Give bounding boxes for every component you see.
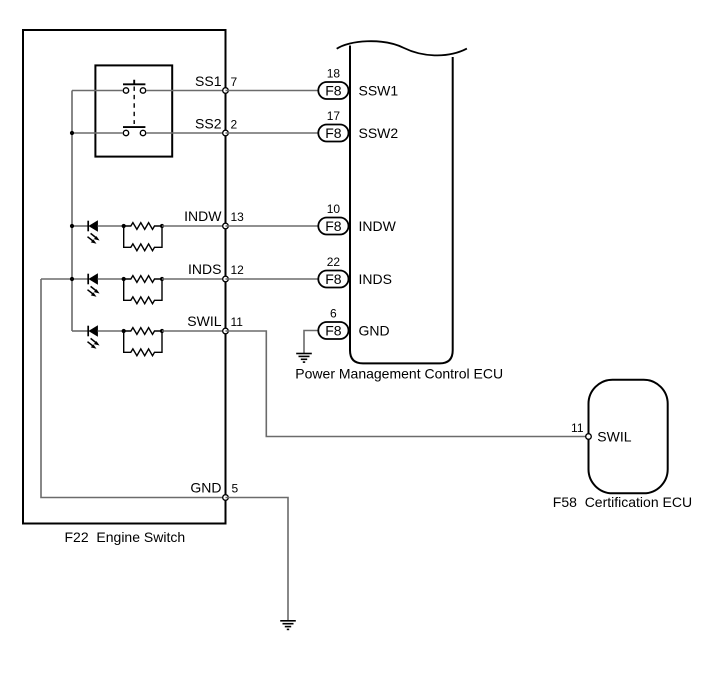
resistor R1 / R2 parallel pair (INDW): [98, 223, 226, 251]
svg-text:F8: F8: [325, 125, 342, 141]
junction node left of R5: [122, 329, 126, 333]
switch SW1 pole2 contact left: [123, 130, 128, 135]
svg-text:INDW: INDW: [184, 208, 222, 224]
resistor R6 zigzag (parallel below): [124, 331, 162, 356]
svg-text:SSW2: SSW2: [359, 125, 399, 141]
switch SW1 pole2 actuator bar: [123, 126, 145, 128]
LED D3 (SWIL) group: [72, 326, 100, 349]
svg-text:GND: GND: [359, 322, 390, 338]
svg-text:10: 10: [327, 202, 341, 216]
ground symbol (ECU GND): [296, 354, 312, 363]
pin INDS (engine switch pin 12): [223, 276, 229, 282]
LED D3 emission arrow 2: [88, 342, 95, 347]
LED D1 emission arrow 2: [88, 237, 95, 242]
resistor R3 zigzag: [124, 276, 162, 283]
wire INDS row: LED to resistor node: [98, 278, 124, 280]
LED D3 emission arrow 1: [91, 338, 98, 343]
svg-text:22: 22: [327, 255, 341, 269]
junction node right of R5: [160, 329, 164, 333]
wire left bus vertical (SS1 to SWIL): [71, 91, 73, 332]
wire SS2 row: left bus to switch contact: [72, 132, 123, 134]
pin SWIL (engine switch pin 11): [223, 328, 229, 334]
connector F8 pin 22 (INDS): [318, 255, 392, 288]
wire INDW row: LED to resistor node: [98, 225, 124, 227]
svg-text:SWIL: SWIL: [187, 313, 221, 329]
LED D2 emission arrow 1: [91, 286, 98, 291]
wire INDS row: left drop bus to LED D2: [41, 278, 88, 280]
pin SS1 (engine switch pin 7): [223, 88, 229, 94]
svg-text:SS2: SS2: [195, 116, 222, 132]
svg-text:F8: F8: [325, 322, 342, 338]
LED D3 triangle: [89, 326, 98, 336]
svg-text:F8: F8: [325, 218, 342, 234]
svg-text:SWIL: SWIL: [597, 428, 631, 444]
wire SWIL row: LED to resistor node: [98, 330, 124, 332]
wire SS1 row: switch to pin 7: [146, 90, 225, 92]
junction bus/SS2: [70, 131, 74, 135]
wire GND pin 5 to ground: [226, 498, 289, 621]
svg-text:11: 11: [231, 315, 244, 329]
resistor R5 zigzag: [124, 328, 162, 335]
svg-text:INDS: INDS: [188, 261, 221, 277]
svg-text:INDW: INDW: [359, 218, 397, 234]
switch SW1 outline box: [95, 65, 172, 156]
svg-text:5: 5: [232, 481, 239, 495]
junction node right of R1: [160, 224, 164, 228]
pin INDW (engine switch pin 13): [223, 223, 229, 229]
switch SW1 pole1 contact right: [140, 88, 145, 93]
svg-text:F8: F8: [325, 82, 342, 98]
svg-text:17: 17: [327, 109, 341, 123]
LED D1 (INDW) group: [70, 221, 100, 244]
svg-text:INDS: INDS: [359, 271, 392, 287]
wire INDS to F8 connector: [226, 278, 319, 280]
wire SS1 to F8 connector: [226, 90, 319, 92]
ground symbol (bottom): [280, 621, 296, 630]
LED D2 emission arrow 2: [88, 290, 95, 295]
wire INDW row: resistor to pin 13: [162, 225, 226, 227]
connector F8 pin 6 (GND): [304, 307, 390, 354]
junction bus/INDS: [70, 277, 74, 281]
switch SW1 linkage dashed line: [133, 87, 135, 125]
connector F8 pin 17 (SSW2): [318, 109, 398, 142]
LED D1 triangle: [89, 221, 98, 231]
wire SWIL row: bus corner to LED D3: [72, 330, 88, 332]
svg-text:11: 11: [571, 421, 584, 435]
resistor R3 / R4 parallel pair (INDS): [98, 276, 226, 304]
svg-text:F58 Certification ECU: F58 Certification ECU: [553, 494, 692, 510]
LED D1 cathode bar: [87, 221, 89, 232]
pin SS2 (engine switch pin 2): [223, 130, 229, 136]
svg-text:F8: F8: [325, 271, 342, 287]
ECU U2 F58 Certification ECU body: [589, 380, 668, 494]
resistor R4 zigzag (parallel below): [124, 279, 162, 304]
svg-text:7: 7: [231, 75, 238, 89]
junction node left of R3: [122, 277, 126, 281]
LED D2 cathode bar: [87, 274, 89, 285]
connector F8 pin 10 (INDW): [318, 202, 396, 235]
wire SWIL: pin 11 to Certification ECU: [226, 331, 589, 437]
pin GND (engine switch pin 5): [223, 495, 229, 501]
wire SS2 row: switch to pin 2: [146, 132, 225, 134]
switch SW1 pole1 actuator bar: [123, 80, 145, 85]
switch SW1 pole1 contact left: [123, 88, 128, 93]
wire INDW to F8 connector: [226, 225, 319, 227]
connector F8 pin 18 (SSW1): [318, 67, 398, 100]
resistor R5 / R6 parallel pair (SWIL): [98, 328, 226, 356]
svg-text:GND: GND: [190, 479, 221, 495]
resistor R2 zigzag (parallel below): [124, 226, 162, 251]
ECU U1 torn-edge wavy top: [337, 41, 467, 55]
LED D2 (INDS) group: [41, 274, 100, 297]
wire F8 GND to ground: [304, 331, 318, 354]
svg-text:12: 12: [231, 263, 245, 277]
switch SW1 pole2 contact right: [140, 130, 145, 135]
svg-text:2: 2: [231, 118, 238, 132]
svg-text:13: 13: [231, 210, 245, 224]
junction node right of R3: [160, 277, 164, 281]
svg-text:Power Management Control ECU: Power Management Control ECU: [295, 365, 503, 381]
wire GND drop bus: INDS row to GND row: [41, 279, 226, 498]
svg-text:SS1: SS1: [195, 73, 222, 89]
resistor R1 zigzag: [124, 223, 162, 230]
wire SS2 to F8 connector: [226, 132, 319, 134]
svg-text:SSW1: SSW1: [359, 82, 399, 98]
svg-text:18: 18: [327, 67, 341, 81]
wire SS1 row: left bus to switch contact: [72, 90, 123, 92]
wire INDS row: resistor to pin 12: [162, 278, 226, 280]
LED D3 cathode bar: [87, 326, 89, 337]
LED D2 triangle: [89, 274, 98, 284]
wire INDW row: bus to LED D1: [72, 225, 88, 227]
svg-text:6: 6: [330, 307, 337, 321]
ECU U1 Power Management Control ECU body: [350, 46, 453, 364]
wire SWIL row: resistor to pin 11: [162, 330, 226, 332]
svg-text:F22 Engine Switch: F22 Engine Switch: [65, 529, 186, 545]
pin SWIL (F58 pin 11): [586, 434, 592, 440]
LED D1 emission arrow 1: [91, 233, 98, 238]
junction node left of R1: [122, 224, 126, 228]
connector F22 Engine Switch outline box: [23, 30, 226, 524]
junction bus/INDW: [70, 224, 74, 228]
